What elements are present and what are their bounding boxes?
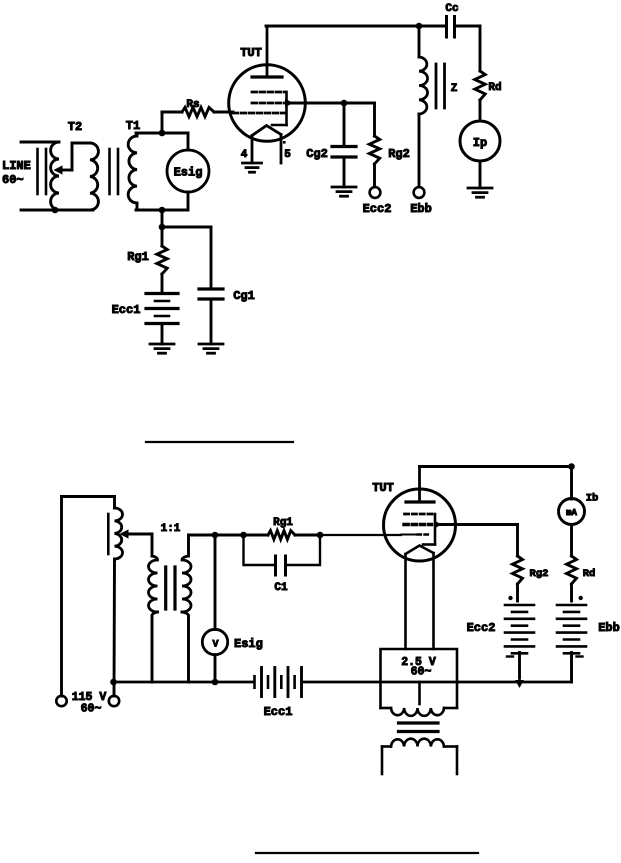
label Rd bottom: [583, 568, 596, 580]
svg-text:Ecc1: Ecc1: [264, 705, 293, 719]
wire Ip to ground: [479, 161, 482, 188]
wire down to Ib meter: [570, 467, 573, 500]
junction node Rg1 left: [240, 532, 247, 539]
svg-text:Cg2: Cg2: [306, 147, 328, 161]
svg-text:Z: Z: [451, 83, 458, 95]
wire Z to Ebb terminal: [418, 114, 421, 187]
tube U1 pin 5 lead: [280, 135, 283, 164]
resistor Rd bottom: [567, 556, 577, 584]
wire Ebb to rail: [570, 653, 573, 683]
generator Esig bottom: [202, 629, 227, 654]
ground Ip: [468, 188, 492, 197]
battery Ecc2 polarity minus: [507, 655, 513, 657]
tube U1 grid row 1: [252, 91, 286, 94]
battery Ecc2 polarity plus: [508, 596, 512, 600]
tube U1 pin 4 lead: [251, 136, 254, 164]
svg-text:Rd: Rd: [488, 82, 501, 94]
wire Rg1 to tube grid: [320, 534, 401, 536]
inductor Z core: [436, 64, 445, 108]
wire Ib to Rd: [570, 525, 573, 557]
tube U2 internal grid tie: [423, 514, 435, 545]
inductor Z winding: [419, 57, 428, 114]
transformer T2 core: [38, 149, 47, 194]
T2 variable tap arrow: [54, 165, 73, 174]
resistor Rg2 top: [369, 136, 379, 164]
svg-text:Esig: Esig: [174, 166, 203, 180]
svg-text:Rd: Rd: [583, 568, 596, 580]
meter Ib: [559, 499, 585, 525]
svg-text:TUT: TUT: [240, 46, 262, 60]
generator Esig top leads: [187, 133, 190, 210]
svg-text:TUT: TUT: [372, 481, 394, 495]
svg-text:60~: 60~: [2, 173, 24, 187]
tick above pin 5 label: [283, 141, 286, 144]
ground Cg1: [199, 344, 223, 353]
svg-text:Rg2: Rg2: [530, 568, 549, 580]
wire Cc to Rd: [455, 26, 481, 71]
transformer T1 primary winding: [90, 143, 98, 210]
wire 1:1 secondary top: [189, 535, 244, 556]
wire rail right end: [520, 681, 572, 684]
battery Ebb polarity minus: [577, 655, 583, 657]
wire riser to Rs: [162, 112, 182, 133]
label Ecc1 bottom: [264, 705, 293, 719]
capacitor Cg1: [199, 289, 223, 299]
capacitor Cg2: [332, 147, 356, 158]
wire rail to Z: [418, 26, 421, 57]
junction node right terminal rail: [110, 679, 117, 686]
figure divider line 2: [256, 852, 478, 854]
label Cc: [445, 3, 458, 15]
filament supply box 2.5V: [381, 649, 458, 708]
wire bottom rail left: [114, 681, 253, 684]
wire bottom rail mid: [303, 681, 520, 684]
label TUT bottom tube: [372, 481, 394, 495]
label Esig bottom: [234, 637, 263, 651]
figure divider line: [146, 441, 293, 443]
junction node screen: [341, 100, 348, 107]
battery Ebb bottom: [557, 605, 586, 653]
label Rg1 bottom: [273, 517, 293, 529]
junction node Rg1 right: [317, 532, 324, 539]
variac T3 winding: [115, 497, 123, 560]
battery Ecc2 bottom: [505, 605, 534, 653]
label Rg2 top: [388, 147, 410, 161]
resistor Rg2 bottom: [513, 556, 523, 584]
svg-text:1:1: 1:1: [161, 523, 181, 535]
transformer 1:1 secondary winding: [182, 556, 191, 616]
label T2: [68, 120, 82, 134]
wire plate to top rail: [266, 25, 446, 28]
svg-text:Ecc1: Ecc1: [112, 303, 141, 317]
transformer 1:1 core: [166, 567, 175, 609]
resistor Rs: [182, 107, 214, 116]
wire plate to Ib: [420, 465, 572, 468]
svg-text:T2: T2: [68, 120, 82, 134]
svg-text:60~: 60~: [81, 703, 102, 716]
filament transformer center tap: [418, 682, 421, 704]
capacitor Cc: [447, 17, 455, 38]
svg-text:Rg1: Rg1: [273, 517, 293, 529]
tube U1 filament: [252, 126, 281, 136]
filament transformer primary winding: [382, 739, 457, 747]
junction node bias: [159, 224, 166, 231]
junction node plate corner: [568, 463, 575, 470]
label pin 5: [284, 149, 291, 161]
wire 1:1 primary bottom: [151, 616, 154, 682]
terminal Ebb top: [414, 187, 425, 198]
filament transformer core: [399, 723, 439, 732]
svg-text:mA: mA: [566, 508, 577, 518]
junction node Esig bottom: [212, 679, 219, 686]
transformer T2 primary winding: [51, 142, 59, 210]
resistor Rg1 top: [157, 246, 167, 274]
label C1: [274, 582, 288, 594]
meter Ip: [460, 121, 500, 161]
wire T1 secondary bottom: [136, 209, 188, 212]
battery Ecc1 bottom: [255, 668, 302, 697]
transformer T1 core: [110, 149, 119, 194]
filament transformer primary leads: [382, 747, 457, 775]
tube U1 grid row 2: [252, 102, 286, 105]
terminal 115V left: [56, 696, 66, 706]
junction node top of T1 secondary: [159, 130, 166, 137]
tube U2 grid row 2: [404, 523, 432, 526]
label 115 V 60~: [72, 691, 107, 716]
generator Esig bottom lead bottom: [214, 655, 217, 682]
variac T3 wiper arrow: [120, 529, 153, 538]
wire T1 secondary top: [136, 132, 188, 135]
label Rg1 top: [127, 250, 149, 264]
svg-text:Ip: Ip: [473, 136, 487, 150]
tube U1 envelope: [229, 65, 306, 142]
wire tap to T1: [72, 143, 89, 170]
wire screen down to Rg2: [516, 525, 519, 557]
wire Cg2 to ground: [343, 157, 346, 187]
label Ebb bottom: [598, 621, 620, 635]
wire Rg1 to Ecc1: [161, 274, 164, 292]
label Rs: [186, 99, 199, 111]
label Ecc2 top: [363, 202, 392, 216]
generator Esig top: [167, 150, 209, 192]
filament transformer secondary winding: [381, 708, 458, 716]
tube U2 pin lead right: [432, 553, 435, 649]
svg-text:Cg1: Cg1: [233, 289, 255, 303]
terminal Ecc2 top: [370, 187, 381, 198]
tube U2 grid row 1: [405, 513, 434, 516]
label Ecc2 bottom: [467, 621, 496, 635]
svg-text:Esig: Esig: [234, 637, 263, 651]
svg-text:Rs: Rs: [186, 99, 199, 111]
tube U2 filament: [406, 546, 434, 555]
wire Rg2 to Ecc2 terminal: [373, 164, 376, 187]
ground pin 4: [243, 163, 262, 172]
label T1: [126, 119, 140, 133]
wire Rs to tube grid: [214, 111, 233, 114]
wire Rd to Ip: [479, 100, 482, 121]
label Ib: [586, 493, 599, 505]
tube U1 grid row 3 (control grid): [233, 112, 286, 115]
svg-text:Rg2: Rg2: [388, 147, 410, 161]
ground Ecc1: [150, 344, 174, 353]
svg-text:Ebb: Ebb: [598, 621, 620, 635]
wire left terminal up: [62, 497, 115, 697]
junction dot T2 primary bottom: [52, 207, 59, 214]
label Rd top: [488, 82, 501, 94]
battery Ecc1 top: [146, 294, 178, 324]
wire wiper to 1:1 primary: [151, 534, 154, 556]
tube U2 plate: [406, 467, 434, 502]
tube U2 pin lead left: [404, 554, 407, 649]
svg-text:LINE: LINE: [2, 159, 31, 173]
wire Rd to Ebb: [570, 584, 573, 601]
wire variac bottom: [113, 559, 116, 696]
tube U1 screen arrow to output: [285, 99, 344, 108]
svg-text:Ecc2: Ecc2: [363, 202, 392, 216]
label Cg1: [233, 289, 255, 303]
tube U2 screen arrow to Rg2: [434, 520, 518, 528]
terminal 115V right: [109, 696, 119, 706]
svg-text:Ecc2: Ecc2: [467, 621, 496, 635]
wire Ecc1 to ground: [161, 324, 164, 345]
junction arrow Ecc2 rail: [515, 679, 524, 688]
battery Ebb polarity plus: [579, 596, 583, 600]
wire to Rg1: [161, 227, 164, 246]
capacitor C1: [276, 556, 286, 575]
label TUT top tube: [240, 46, 262, 60]
junction node bottom of T1 secondary: [159, 207, 166, 214]
label Rg2 bottom: [530, 568, 549, 580]
wire screen to Rg2: [344, 103, 375, 136]
svg-text:T1: T1: [126, 119, 140, 133]
wire Rg2 to Ecc2: [516, 584, 519, 601]
label Ebb top: [410, 202, 432, 216]
tube U1 internal grid tie: [272, 92, 287, 125]
wire screen to Cg2: [343, 103, 346, 146]
transformer T1 secondary winding: [128, 133, 137, 210]
label Ecc1 top: [112, 303, 141, 317]
label Cg2: [306, 147, 328, 161]
resistor Rd top: [475, 71, 485, 100]
variac T3 core bar: [107, 514, 110, 554]
generator Esig bottom lead top: [214, 535, 217, 630]
svg-text:60~: 60~: [411, 666, 432, 679]
tube U2 grid row 3 (control grid): [401, 534, 429, 536]
wire LINE bottom: [21, 209, 93, 212]
svg-text:C1: C1: [274, 582, 288, 594]
tube U2 envelope: [384, 489, 456, 561]
svg-text:Ib: Ib: [586, 493, 599, 505]
wire Cg1 to ground: [210, 299, 213, 344]
resistor Rg1 bottom: [244, 531, 321, 540]
tube U1 plate: [252, 26, 282, 77]
svg-text:Ebb: Ebb: [410, 202, 432, 216]
capacitor C1 loop: [244, 535, 321, 565]
ground Cg2: [332, 187, 356, 196]
wire 1:1 secondary bottom: [187, 616, 190, 682]
svg-text:5: 5: [284, 149, 291, 161]
wire down to bias node: [161, 210, 164, 227]
svg-text:Rg1: Rg1: [127, 250, 149, 264]
wire LINE top: [21, 141, 57, 144]
junction node plate rail: [416, 23, 423, 30]
svg-text:4: 4: [241, 149, 248, 161]
wire bias node to Cg1: [162, 227, 211, 289]
transformer 1:1 primary winding: [149, 556, 158, 616]
label Z: [451, 83, 458, 95]
label 2.5 V 60~: [401, 656, 436, 679]
label pin 4: [241, 149, 248, 161]
label 1:1: [161, 523, 181, 535]
wire Ecc2 to rail: [518, 653, 521, 679]
svg-text:V: V: [212, 640, 218, 651]
label LINE 60~: [2, 159, 31, 187]
svg-text:Cc: Cc: [445, 3, 458, 15]
junction node Esig tap: [212, 532, 219, 539]
